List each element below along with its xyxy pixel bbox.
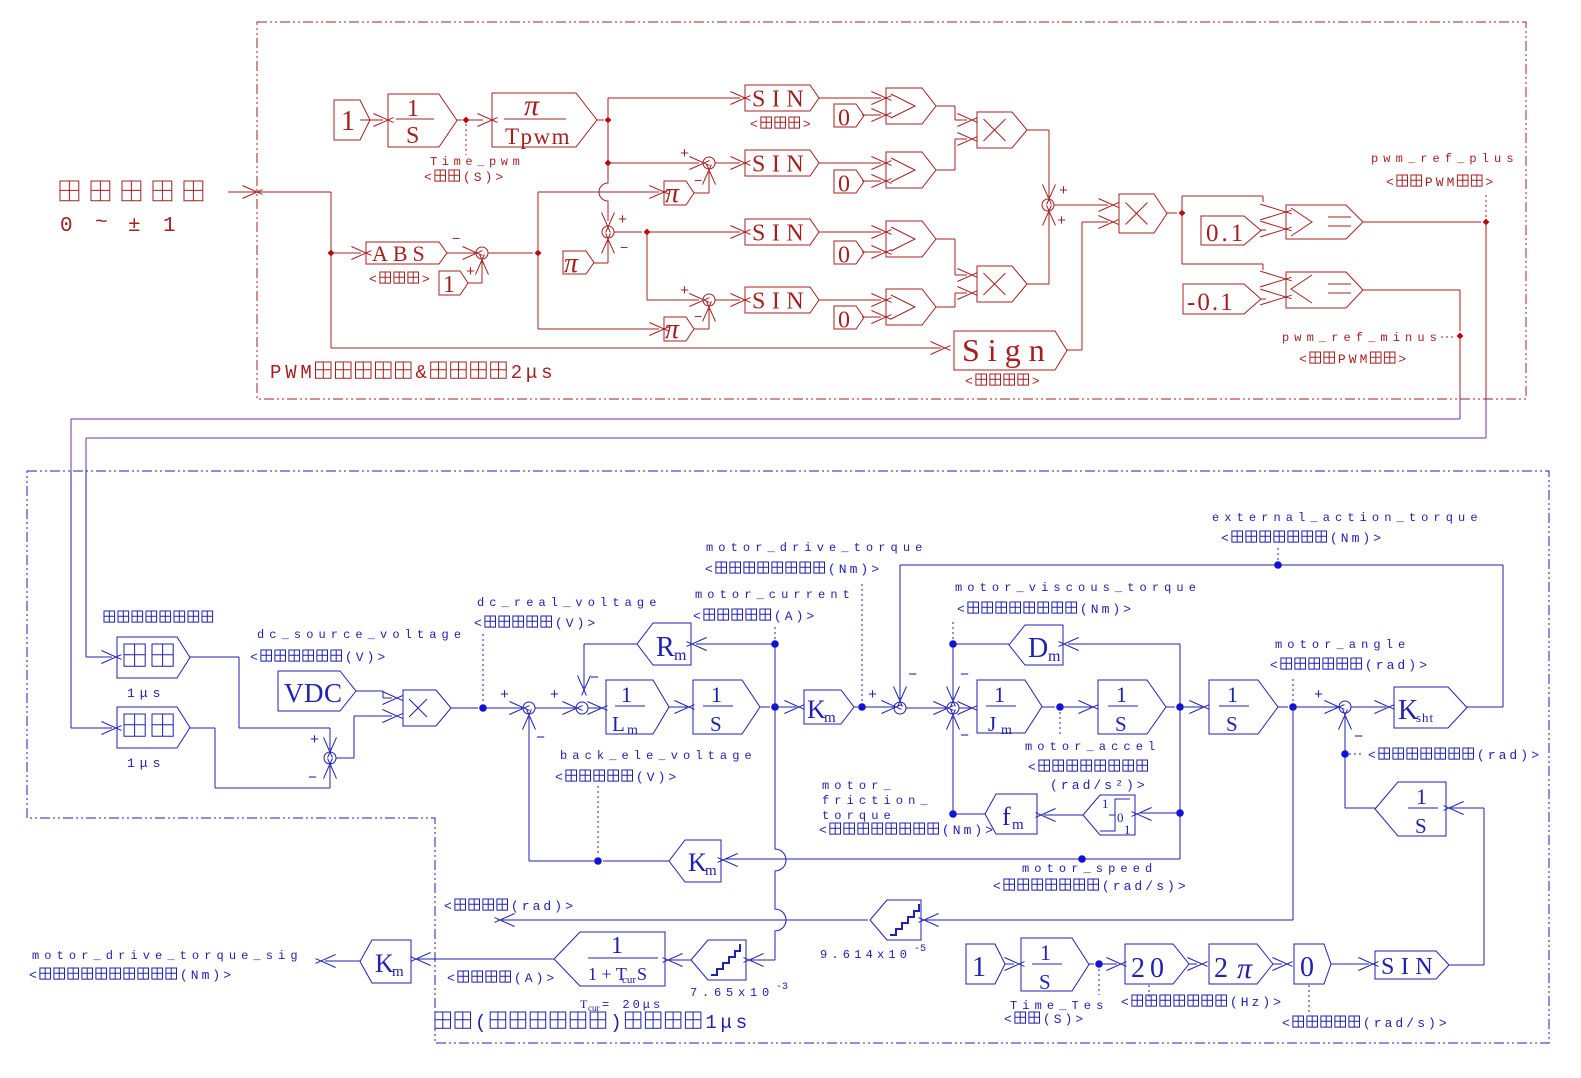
svg-text:1: 1 [1102, 796, 1109, 811]
svg-text:): ) [1065, 1012, 1073, 1027]
svg-text:>: > [803, 117, 811, 132]
svg-text:(: ( [511, 899, 519, 914]
svg-text:<: < [965, 374, 973, 389]
svg-text:S: S [637, 964, 647, 984]
svg-text:0.1: 0.1 [1206, 220, 1246, 247]
svg-text:m: m [1048, 648, 1061, 665]
svg-text:<: < [474, 616, 482, 631]
svg-text:): ) [212, 968, 220, 983]
svg-text:&: & [416, 362, 427, 384]
svg-text:-3: -3 [776, 982, 788, 993]
svg-text:s: s [736, 1012, 747, 1034]
svg-text:+: + [868, 687, 877, 704]
svg-text:(: ( [1080, 602, 1088, 617]
svg-text:): ) [554, 899, 562, 914]
svg-text:d: d [543, 899, 551, 914]
svg-text:): ) [577, 616, 585, 631]
svg-text:−: − [960, 667, 969, 684]
svg-text:cur: cur [622, 974, 636, 986]
svg-text:π: π [1237, 952, 1253, 985]
svg-text:S: S [406, 123, 419, 149]
svg-text:V: V [566, 616, 574, 631]
svg-text:0: 0 [1300, 952, 1314, 983]
svg-text:−: − [694, 310, 702, 326]
svg-text:m: m [1102, 602, 1110, 617]
svg-text:(: ( [1050, 778, 1058, 793]
svg-text:d: d [1397, 658, 1405, 673]
svg-text:−: − [908, 667, 917, 684]
svg-text:>: > [1273, 995, 1281, 1010]
svg-text:1: 1 [1116, 682, 1127, 707]
svg-text:a: a [1385, 1016, 1393, 1031]
svg-text:A: A [785, 609, 793, 624]
svg-text:μ: μ [721, 1012, 732, 1034]
svg-text:7.65x10: 7.65x10 [690, 986, 774, 1000]
svg-text:0: 0 [838, 243, 850, 269]
svg-text:/: / [1093, 778, 1101, 793]
svg-text:SIN: SIN [752, 152, 810, 178]
svg-text:d: d [1083, 778, 1091, 793]
svg-text:<: < [369, 272, 377, 287]
svg-text:(: ( [636, 770, 644, 785]
svg-text:1: 1 [621, 682, 632, 707]
svg-text:1: 1 [711, 682, 722, 707]
svg-text:>: > [546, 971, 554, 986]
svg-text:−: − [536, 730, 545, 747]
svg-text:2: 2 [1214, 953, 1228, 984]
svg-text:+: + [1057, 213, 1066, 230]
svg-text:<: < [250, 650, 258, 665]
svg-text:J: J [988, 712, 996, 736]
svg-text:(: ( [1230, 995, 1238, 1010]
svg-text:P: P [270, 362, 281, 384]
svg-text:a: a [533, 899, 541, 914]
svg-text:9.614x10: 9.614x10 [820, 948, 911, 962]
svg-text:<: < [1028, 760, 1036, 775]
svg-text:SIN: SIN [1381, 954, 1439, 980]
svg-text:motor_current: motor_current [695, 588, 855, 602]
svg-text:d: d [1509, 748, 1517, 763]
svg-text:r: r [1488, 748, 1496, 763]
svg-text:): ) [610, 1012, 621, 1034]
svg-text:S: S [1115, 712, 1127, 736]
svg-text:T: T [580, 997, 588, 1011]
svg-text:<: < [1368, 748, 1376, 763]
svg-text:S: S [1415, 814, 1427, 838]
svg-text:>: > [587, 616, 595, 631]
svg-text:/: / [1145, 879, 1153, 894]
svg-text:SIN: SIN [752, 87, 810, 113]
svg-text:dc_source_voltage: dc_source_voltage [257, 628, 466, 642]
svg-text:s: s [1156, 879, 1164, 894]
svg-text:+: + [550, 687, 559, 704]
svg-text:+: + [500, 687, 509, 704]
svg-text:motor_: motor_ [822, 779, 896, 793]
svg-text:): ) [1262, 995, 1270, 1010]
svg-text:±: ± [128, 215, 141, 238]
svg-text:S: S [710, 712, 722, 736]
svg-text:+: + [466, 264, 475, 281]
svg-text:motor_speed: motor_speed [1022, 862, 1157, 876]
svg-text:>: > [1123, 602, 1131, 617]
svg-text:N: N [839, 562, 847, 577]
svg-text:S: S [1226, 712, 1238, 736]
svg-text:>: > [422, 272, 430, 287]
svg-text:N: N [1341, 531, 1349, 546]
svg-text:(: ( [475, 1012, 486, 1034]
svg-text:+: + [680, 283, 689, 300]
svg-text:1: 1 [994, 682, 1005, 707]
svg-text:1: 1 [1040, 940, 1051, 965]
svg-text:): ) [536, 971, 544, 986]
svg-text:<: < [819, 823, 827, 838]
svg-text:r: r [1376, 658, 1384, 673]
svg-text:): ) [1167, 879, 1175, 894]
svg-text:A: A [525, 971, 533, 986]
svg-text:r: r [1061, 778, 1069, 793]
svg-text:(: ( [1330, 531, 1338, 546]
svg-text:Time_pwm: Time_pwm [430, 155, 524, 169]
svg-text:W: W [1349, 352, 1357, 367]
svg-text:0: 0 [838, 172, 850, 198]
svg-text:S: S [474, 170, 482, 185]
svg-text:π: π [665, 314, 680, 345]
svg-text:0: 0 [838, 106, 850, 132]
svg-text:): ) [658, 770, 666, 785]
svg-text:m: m [392, 964, 404, 980]
svg-text:(: ( [1363, 1016, 1371, 1031]
svg-text:(: ( [180, 968, 188, 983]
svg-text:(: ( [1043, 1012, 1051, 1027]
svg-text:1: 1 [1124, 822, 1131, 837]
svg-text:0: 0 [838, 308, 850, 334]
svg-text:SIN: SIN [752, 289, 810, 315]
svg-text:>: > [1032, 374, 1040, 389]
svg-text:1μs: 1μs [127, 756, 165, 771]
svg-text:>: > [565, 899, 573, 914]
svg-text:s: s [541, 362, 552, 384]
svg-text:<: < [750, 117, 758, 132]
svg-text:(: ( [774, 609, 782, 624]
svg-text:m: m [1352, 531, 1360, 546]
svg-text:<: < [705, 562, 713, 577]
svg-text:−: − [308, 770, 317, 787]
svg-text:−: − [452, 232, 460, 248]
svg-text:1: 1 [705, 1012, 716, 1034]
svg-text:0: 0 [1117, 810, 1124, 825]
svg-text:): ) [1126, 778, 1134, 793]
svg-text:R: R [656, 632, 675, 663]
svg-text:(: ( [555, 616, 563, 631]
svg-text:>: > [1178, 879, 1186, 894]
svg-text:<: < [555, 770, 563, 785]
svg-text:(: ( [1365, 658, 1373, 673]
svg-text:<: < [1270, 658, 1278, 673]
svg-text:): ) [1520, 748, 1528, 763]
svg-text:+: + [310, 732, 319, 749]
svg-text:m: m [850, 562, 858, 577]
svg-text:): ) [485, 170, 493, 185]
svg-text:1: 1 [972, 952, 986, 983]
svg-text:<: < [1121, 995, 1129, 1010]
svg-text:1: 1 [611, 933, 623, 959]
svg-text:V: V [356, 650, 364, 665]
svg-text:(: ( [942, 823, 950, 838]
svg-text:−: − [620, 241, 628, 257]
svg-text:L: L [612, 712, 625, 736]
svg-text:>: > [1531, 748, 1539, 763]
svg-text:s: s [1104, 778, 1112, 793]
svg-text:<: < [29, 968, 37, 983]
svg-text:external_action_torque: external_action_torque [1212, 511, 1483, 525]
svg-text:+: + [618, 212, 627, 229]
svg-text:S: S [1054, 1012, 1062, 1027]
svg-text:(: ( [1102, 879, 1110, 894]
svg-text:>: > [377, 650, 385, 665]
svg-text:): ) [1428, 1016, 1436, 1031]
svg-text:>: > [871, 562, 879, 577]
svg-text:<: < [447, 971, 455, 986]
svg-text:<: < [424, 170, 432, 185]
svg-text:<: < [693, 609, 701, 624]
svg-text:H: H [1241, 995, 1249, 1010]
svg-text:>: > [1398, 352, 1406, 367]
svg-text:N: N [1091, 602, 1099, 617]
svg-text:<: < [1386, 175, 1394, 190]
svg-text:>: > [1137, 778, 1145, 793]
svg-text:ABS: ABS [372, 241, 430, 266]
svg-text:20: 20 [1131, 953, 1169, 984]
svg-text:1 + T: 1 + T [588, 964, 627, 984]
svg-text:): ) [796, 609, 804, 624]
svg-text:+: + [1059, 183, 1068, 200]
svg-text:−: − [590, 670, 599, 687]
svg-text:-5: -5 [914, 944, 926, 955]
svg-text:(: ( [345, 650, 353, 665]
svg-text:z: z [1252, 995, 1260, 1010]
svg-text:0: 0 [60, 215, 73, 238]
svg-text:VDC: VDC [284, 678, 343, 708]
svg-text:pwm_ref_plus: pwm_ref_plus [1371, 152, 1519, 166]
svg-text:D: D [1028, 633, 1048, 664]
svg-text:m: m [824, 710, 836, 726]
svg-text:Sign: Sign [962, 332, 1053, 368]
svg-text:a: a [1499, 748, 1507, 763]
svg-text:>: > [668, 770, 676, 785]
svg-text:N: N [191, 968, 199, 983]
svg-text:dc_real_voltage: dc_real_voltage [477, 596, 662, 610]
svg-text:d: d [1395, 1016, 1403, 1031]
svg-text:-0.1: -0.1 [1187, 289, 1235, 316]
svg-text:SIN: SIN [752, 221, 810, 247]
svg-text:<: < [1282, 1016, 1290, 1031]
svg-text:M: M [1447, 175, 1455, 190]
svg-text:): ) [367, 650, 375, 665]
svg-text:motor_accel: motor_accel [1025, 740, 1160, 754]
svg-text:>: > [1373, 531, 1381, 546]
svg-text:<: < [1221, 531, 1229, 546]
svg-text:>: > [495, 170, 503, 185]
svg-text:1: 1 [341, 106, 355, 137]
svg-text:Tpwm: Tpwm [505, 124, 571, 149]
svg-text:m: m [1012, 817, 1024, 833]
svg-text:(: ( [463, 170, 471, 185]
svg-text:(: ( [1477, 748, 1485, 763]
svg-text:−: − [694, 174, 702, 190]
svg-text:W: W [285, 362, 297, 384]
svg-text:1: 1 [163, 215, 176, 238]
svg-text:motor_viscous_torque: motor_viscous_torque [955, 581, 1201, 595]
svg-text:friction_: friction_ [822, 794, 933, 808]
svg-text:motor_angle: motor_angle [1275, 638, 1410, 652]
svg-text:1μs: 1μs [127, 686, 165, 701]
svg-text:r: r [522, 899, 530, 914]
svg-text:1: 1 [1416, 784, 1427, 809]
svg-text:/: / [1406, 1016, 1414, 1031]
svg-text:+: + [680, 146, 689, 163]
svg-text:>: > [1439, 1016, 1447, 1031]
svg-text:m: m [705, 863, 717, 879]
svg-text:1: 1 [407, 96, 419, 122]
svg-text:S: S [1039, 970, 1051, 994]
svg-text:<: < [1299, 352, 1307, 367]
svg-text:<: < [993, 879, 1001, 894]
svg-text:>: > [1485, 175, 1493, 190]
svg-text:>: > [223, 968, 231, 983]
svg-text:): ) [1112, 602, 1120, 617]
svg-text:M: M [1360, 352, 1368, 367]
svg-text:): ) [974, 823, 982, 838]
svg-text:N: N [953, 823, 961, 838]
svg-text:(: ( [514, 971, 522, 986]
svg-text:sht: sht [1416, 710, 1434, 725]
svg-text:+: + [1314, 687, 1323, 704]
svg-text:motor_drive_torque_sig: motor_drive_torque_sig [32, 949, 303, 963]
svg-text:d: d [1134, 879, 1142, 894]
svg-text:>: > [1075, 1012, 1083, 1027]
svg-text:): ) [1362, 531, 1370, 546]
svg-text:a: a [1072, 778, 1080, 793]
svg-text:m: m [1001, 723, 1012, 738]
svg-text:1: 1 [443, 272, 455, 298]
svg-text:<: < [957, 602, 965, 617]
svg-text:= 20μs: = 20μs [602, 998, 663, 1012]
svg-text:1: 1 [1227, 682, 1238, 707]
svg-text:cur: cur [588, 1003, 600, 1013]
svg-text:>: > [806, 609, 814, 624]
svg-text:s: s [1417, 1016, 1425, 1031]
svg-text:): ) [1408, 658, 1416, 673]
svg-text:m: m [202, 968, 210, 983]
svg-text:): ) [860, 562, 868, 577]
svg-text:V: V [647, 770, 655, 785]
svg-text:m: m [674, 647, 687, 664]
svg-text:a: a [1124, 879, 1132, 894]
svg-text:2: 2 [511, 362, 522, 384]
svg-text:<: < [444, 899, 452, 914]
svg-text:²: ² [1115, 778, 1123, 793]
svg-text:m: m [964, 823, 972, 838]
svg-text:P: P [1425, 175, 1433, 190]
svg-text:M: M [300, 362, 311, 384]
svg-text:W: W [1436, 175, 1444, 190]
svg-text:r: r [1113, 879, 1121, 894]
svg-text:π: π [524, 89, 540, 122]
svg-text:~: ~ [95, 212, 108, 235]
svg-text:π: π [564, 248, 579, 279]
svg-text:>: > [1419, 658, 1427, 673]
svg-text:μ: μ [526, 362, 537, 384]
svg-text:torque: torque [822, 809, 896, 823]
svg-text:motor_drive_torque: motor_drive_torque [706, 541, 927, 555]
svg-text:−: − [1354, 729, 1363, 746]
svg-text:a: a [1387, 658, 1395, 673]
svg-text:>: > [985, 823, 993, 838]
svg-text:P: P [1338, 352, 1346, 367]
svg-text:back_ele_voltage: back_ele_voltage [560, 749, 757, 763]
svg-text:<: < [1004, 1012, 1012, 1027]
svg-text:(: ( [828, 562, 836, 577]
svg-text:r: r [1374, 1016, 1382, 1031]
svg-text:m: m [627, 723, 638, 738]
svg-text:f: f [1002, 802, 1011, 831]
svg-text:pwm_ref_minus: pwm_ref_minus [1282, 331, 1442, 345]
svg-text:−: − [960, 728, 969, 745]
